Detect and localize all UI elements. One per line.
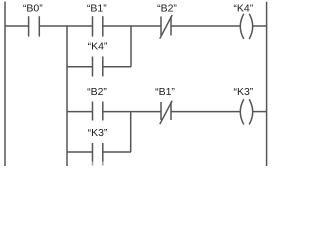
svg-text:“B1”: “B1” [87, 3, 107, 15]
contact B1 [93, 16, 103, 36]
svg-text:“B2”: “B2” [87, 86, 107, 98]
svg-text:“K4”: “K4” [233, 3, 253, 15]
svg-text:“K3”: “K3” [233, 86, 253, 98]
svg-text:“K4”: “K4” [88, 41, 108, 53]
wire rung2 seg3 [171, 111, 241, 113]
wire rung1 seg1 [5, 25, 29, 27]
wire rung2 seg1 [67, 111, 93, 113]
wire rung1 seg5 [253, 25, 267, 27]
wire rung2 seg4 [253, 111, 267, 113]
svg-text:“K3”: “K3” [88, 127, 108, 139]
wire branch2 seg1 [67, 151, 93, 153]
contact K4 [93, 57, 103, 77]
wire rung1 seg3 [103, 25, 161, 27]
svg-text:“B2”: “B2” [157, 3, 177, 15]
right power rail [266, 2, 268, 166]
wire branch2 close vertical [130, 112, 132, 152]
coil K3 [240, 99, 252, 124]
wire rung2 seg2 [103, 111, 161, 113]
coil K4 [240, 14, 252, 39]
contact B0 [29, 16, 40, 36]
wire branch2 seg2 [103, 151, 131, 153]
wire rung1 seg2 [39, 25, 92, 27]
wire rung1 seg4 [171, 25, 241, 27]
contact B1 (NC) rung2 [160, 101, 172, 125]
contact cutoff bottom [93, 161, 103, 166]
wire branch1 seg2 [103, 66, 131, 68]
contact B2 rung2 [93, 102, 103, 121]
wire branch vertical left [66, 26, 68, 166]
wire branch1 close vertical [130, 26, 132, 67]
contact K3 [93, 143, 103, 162]
left power rail [4, 2, 6, 167]
wire branch1 seg1 [67, 66, 93, 68]
contact B2 (NC) [160, 15, 172, 39]
svg-text:“B0”: “B0” [23, 3, 43, 15]
svg-text:“B1”: “B1” [155, 86, 175, 98]
